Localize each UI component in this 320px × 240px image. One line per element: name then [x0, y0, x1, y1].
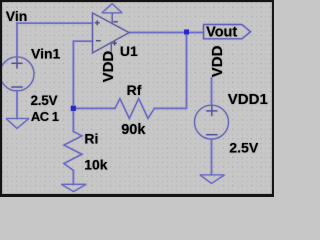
schematic artwork crisp pass — [0, 1, 274, 196]
schematic background — [0, 0, 274, 197]
schematic artwork soft halo pass — [0, 1, 274, 196]
